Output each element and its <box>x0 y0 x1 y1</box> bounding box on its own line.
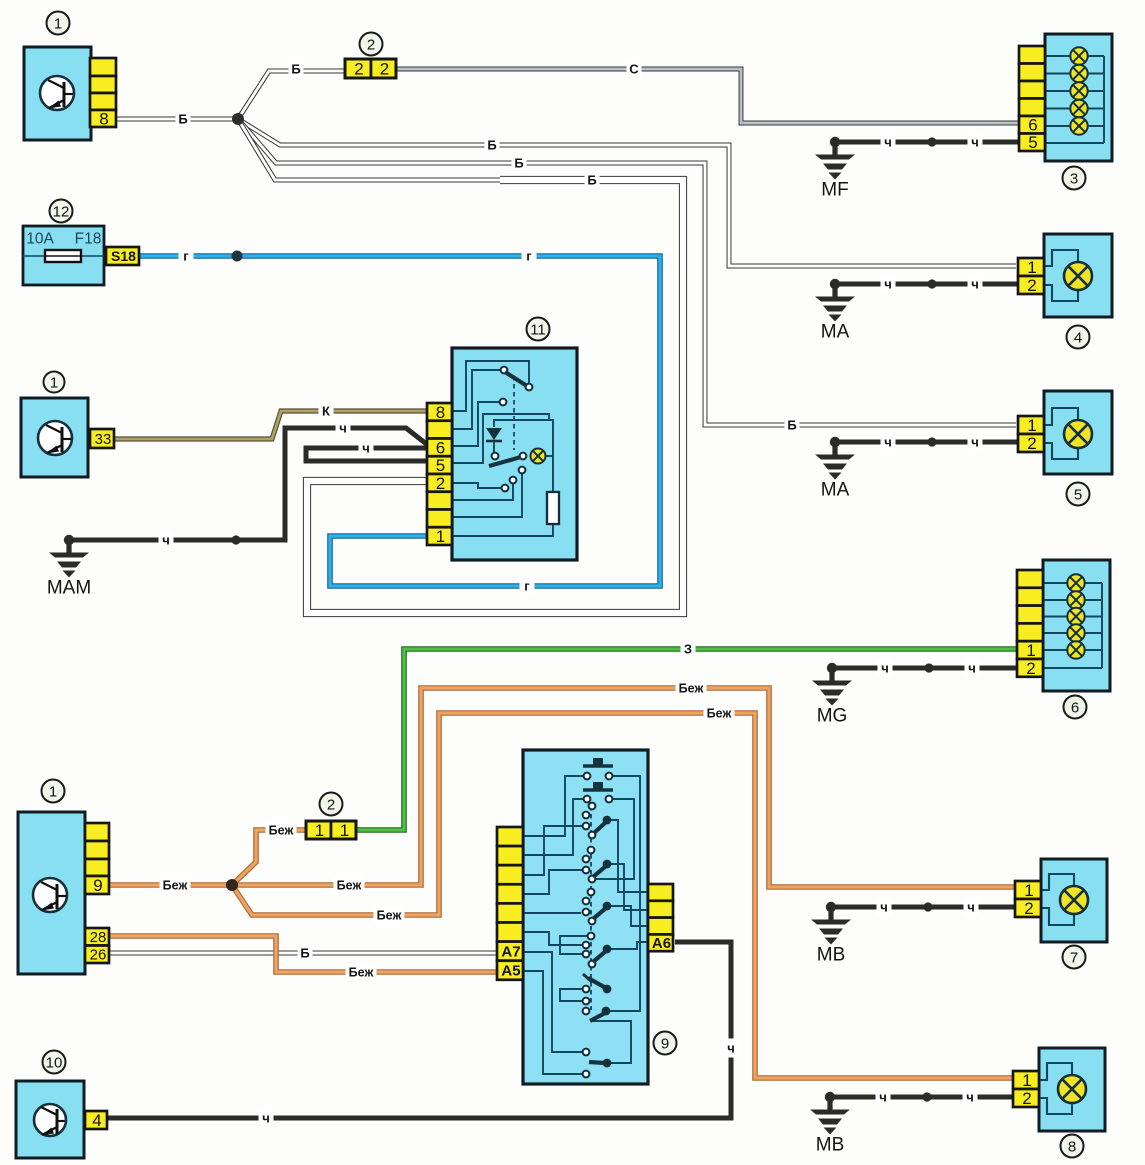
lamps in cluster 3 <box>1070 47 1087 64</box>
wire Беж splice to lamp 8 pin 1 <box>232 713 1014 1078</box>
svg-text:10: 10 <box>46 1054 63 1071</box>
diode in relay <box>486 428 502 440</box>
svg-text:ч: ч <box>162 533 170 548</box>
transistor symbol <box>34 1104 66 1136</box>
ground MA <box>830 437 840 447</box>
relay lower contacts <box>519 467 526 474</box>
ignition switch unit 1 (top) <box>24 47 91 140</box>
pin S18 <box>106 247 139 265</box>
relay 11 body <box>452 348 577 560</box>
svg-text:Беж: Беж <box>679 681 704 695</box>
svg-text:Беж: Беж <box>163 878 188 892</box>
lamp symbol 4 <box>1064 262 1092 290</box>
label Б <box>585 173 600 188</box>
left pins of switch 9 <box>497 827 523 846</box>
wire Беж switch 1 pin 28 to switch 9 pin A5 <box>109 936 499 972</box>
wire ч ground MB to lamp 7 pin 2 <box>831 905 1017 910</box>
svg-text:2: 2 <box>1027 434 1036 453</box>
pins of cluster 3 <box>1019 46 1045 64</box>
transistor symbol <box>33 878 67 912</box>
svg-text:З: З <box>684 642 692 657</box>
label Беж <box>704 706 735 721</box>
ground MB <box>826 902 836 912</box>
relay 11 internal wiring <box>452 361 529 411</box>
svg-text:ч: ч <box>262 1111 270 1126</box>
svg-text:5: 5 <box>436 456 445 475</box>
svg-text:Б: Б <box>587 173 596 188</box>
svg-text:2: 2 <box>327 796 335 813</box>
pins of lamp 5 <box>1018 416 1044 434</box>
designator 11 <box>527 318 550 341</box>
switch stage D <box>588 933 595 940</box>
svg-text:ч: ч <box>362 441 370 456</box>
label Беж <box>160 878 191 893</box>
wire К switch unit 1 pin 33 to relay 11 pin 8 <box>114 411 429 439</box>
lamp cluster 6 <box>1043 560 1110 691</box>
svg-text:ч: ч <box>881 661 889 676</box>
svg-text:ч: ч <box>879 1090 887 1105</box>
label ч <box>359 441 374 456</box>
splice on wire Г <box>232 251 243 262</box>
svg-text:2: 2 <box>1022 1089 1031 1108</box>
label г <box>522 249 537 264</box>
lamp unit 4 <box>1044 234 1112 317</box>
lamp unit 5 <box>1044 391 1112 474</box>
svg-text:1: 1 <box>315 821 324 840</box>
internal wiring of cluster 6 <box>1043 582 1068 584</box>
svg-text:5: 5 <box>1074 486 1082 503</box>
switch stage A <box>589 803 596 810</box>
push button contact 2 <box>583 788 613 791</box>
label Беж <box>346 965 377 980</box>
label Беж <box>676 681 707 696</box>
wire Б splice loop to relay 11 pin 2 <box>238 119 500 180</box>
lamp unit 7 <box>1041 859 1107 942</box>
svg-text:Б: Б <box>300 946 309 961</box>
svg-text:8: 8 <box>1068 1138 1076 1155</box>
wire Беж splice to connector 2 <box>232 830 306 885</box>
svg-text:1: 1 <box>50 374 58 391</box>
svg-text:MA: MA <box>821 480 850 501</box>
wire ч switch 10 pin 4 to switch 9 pin A6 <box>107 942 731 1118</box>
wire Б from switch unit 1 pin 8 to splice <box>116 117 238 122</box>
svg-text:ч: ч <box>968 661 976 676</box>
svg-text:33: 33 <box>95 431 112 448</box>
svg-text:ч: ч <box>884 435 892 450</box>
wire Б splice to connector 2 <box>238 71 345 119</box>
pins of unit 1 bottom <box>85 823 109 841</box>
svg-text:9: 9 <box>661 1035 669 1052</box>
wire Беж splice to lamp 7 pin 1 <box>232 688 1016 887</box>
ground MB <box>825 1092 835 1102</box>
svg-text:1: 1 <box>1026 641 1035 660</box>
designator 7 <box>1063 946 1086 969</box>
svg-text:1: 1 <box>54 15 62 32</box>
label ч <box>259 1111 274 1126</box>
splice node on Б wires <box>232 113 244 125</box>
designator 2 <box>360 33 383 56</box>
wire ч ground MG to lamp cluster 6 pin 2 <box>832 666 1019 671</box>
connector 2 (bottom) <box>306 821 331 839</box>
svg-text:ч: ч <box>884 277 892 292</box>
svg-text:1: 1 <box>1027 258 1036 277</box>
svg-text:2: 2 <box>1026 659 1035 678</box>
resistor in relay <box>547 492 559 524</box>
svg-text:г: г <box>524 579 530 594</box>
svg-text:Б: Б <box>787 418 796 433</box>
wire Б switch 1 pin 26 to switch 9 pin A7 <box>109 951 499 956</box>
pins of lamp 8 <box>1013 1071 1039 1089</box>
lamp cluster 3 <box>1045 34 1112 161</box>
designator 9 <box>654 1032 677 1055</box>
internal wiring of cluster 3 <box>1045 55 1070 57</box>
wire ч ground MA to lamp 5 pin 2 <box>835 440 1020 445</box>
label Б <box>485 138 500 153</box>
svg-text:4: 4 <box>1074 329 1082 346</box>
svg-text:2: 2 <box>380 59 389 78</box>
svg-text:1: 1 <box>1024 881 1033 900</box>
lamps in cluster 6 <box>1067 574 1084 591</box>
label Беж <box>266 823 297 838</box>
label ч <box>336 421 351 436</box>
wire ч ground MF to lamp cluster 3 pin 5 <box>835 140 1021 145</box>
designator 10 <box>43 1051 66 1074</box>
svg-text:S18: S18 <box>111 248 136 264</box>
svg-text:ч: ч <box>884 135 892 150</box>
svg-text:4: 4 <box>92 1111 101 1130</box>
pins of cluster 6 <box>1017 570 1043 588</box>
label К <box>319 404 334 419</box>
svg-text:12: 12 <box>53 203 70 220</box>
label Б <box>785 418 800 433</box>
designator 6 <box>1064 696 1087 719</box>
svg-text:10A: 10A <box>26 230 54 247</box>
ground МАМ <box>64 535 74 545</box>
svg-text:A5: A5 <box>501 963 520 980</box>
svg-text:Б: Б <box>514 156 523 171</box>
svg-text:ч: ч <box>966 1090 974 1105</box>
connector 2 (top) <box>345 59 371 78</box>
wire С connector 2 to lamp cluster 3 pin 6 <box>396 69 1021 123</box>
designator 1 <box>42 780 65 803</box>
svg-text:Б: Б <box>291 62 300 77</box>
relay switch top <box>501 367 508 374</box>
svg-text:Беж: Беж <box>269 823 294 837</box>
svg-text:1: 1 <box>49 783 57 800</box>
svg-text:8: 8 <box>99 109 108 128</box>
label Б <box>176 112 191 127</box>
svg-text:A7: A7 <box>501 943 520 960</box>
svg-text:6: 6 <box>436 438 445 457</box>
pins of relay 11 <box>427 403 452 421</box>
designator 4 <box>1067 326 1090 349</box>
switch stage F <box>583 1049 590 1056</box>
indicator lamp in relay <box>531 449 546 464</box>
svg-text:MB: MB <box>816 1135 845 1156</box>
svg-text:2: 2 <box>1024 899 1033 918</box>
fuse symbol <box>45 250 81 262</box>
svg-text:1: 1 <box>1027 416 1036 435</box>
internal wiring of lamp 8 <box>1039 1063 1072 1080</box>
splice node on Беж wires <box>226 879 238 891</box>
svg-text:8: 8 <box>436 403 445 422</box>
lamp symbol 8 <box>1058 1075 1086 1103</box>
switch unit 10 <box>16 1081 84 1158</box>
relay switch middle <box>492 453 499 460</box>
switch unit 1 (middle) <box>21 398 88 477</box>
svg-text:11: 11 <box>530 321 546 338</box>
label г <box>520 579 535 594</box>
switch stage B <box>588 847 595 854</box>
wire Г fuse F18 to relay 11 pin 1 <box>138 256 660 586</box>
svg-text:1: 1 <box>340 821 349 840</box>
pins of lamp 7 <box>1015 881 1041 899</box>
pin 4 <box>85 1111 107 1129</box>
mechanical link dashed <box>513 376 515 450</box>
label Б <box>512 156 527 171</box>
svg-text:6: 6 <box>1071 699 1079 716</box>
svg-text:ч: ч <box>971 435 979 450</box>
designator 1 <box>44 372 65 393</box>
label Беж <box>374 908 405 923</box>
svg-text:г: г <box>526 249 532 264</box>
svg-text:3: 3 <box>1070 170 1078 187</box>
svg-text:Беж: Беж <box>707 706 732 720</box>
svg-text:МАМ: МАМ <box>47 578 91 599</box>
switch unit 1 (bottom) <box>18 812 85 974</box>
svg-text:С: С <box>629 62 639 77</box>
designator 3 <box>1063 167 1086 190</box>
ground MA <box>830 279 840 289</box>
designator 12 <box>50 200 73 223</box>
internal wiring of lamp 4 <box>1044 250 1078 266</box>
connector pins of unit 1 <box>90 58 116 76</box>
transistor symbol <box>38 421 72 455</box>
pins of lamp 4 <box>1018 258 1044 276</box>
transistor symbol in unit 1 <box>40 76 74 110</box>
svg-text:Беж: Беж <box>349 965 374 979</box>
lamp unit 8 <box>1039 1048 1105 1131</box>
right pins of switch 9 <box>648 884 673 901</box>
svg-text:ч: ч <box>971 277 979 292</box>
designator 8 <box>1061 1135 1084 1158</box>
svg-text:2: 2 <box>1027 276 1036 295</box>
svg-text:Беж: Беж <box>337 878 362 892</box>
wire З connector 2 to lamp cluster 6 pin 1 <box>356 649 1019 830</box>
svg-text:ч: ч <box>967 900 975 915</box>
svg-text:2: 2 <box>367 36 375 53</box>
svg-text:F18: F18 <box>75 230 102 247</box>
switch stage C <box>588 889 595 896</box>
switch 9 internal wiring <box>523 776 583 836</box>
wire Беж switch 1 pin 9 to splice <box>109 882 232 888</box>
ground MG <box>827 663 837 673</box>
svg-text:MB: MB <box>817 945 846 966</box>
svg-text:2: 2 <box>354 59 363 78</box>
svg-text:Беж: Беж <box>377 908 402 922</box>
relay contact <box>500 399 507 406</box>
label Беж <box>334 878 365 893</box>
svg-text:7: 7 <box>1070 949 1078 966</box>
label Б <box>289 62 304 77</box>
label ч <box>159 533 174 548</box>
svg-text:5: 5 <box>1028 133 1037 152</box>
lamp symbol 5 <box>1064 420 1092 448</box>
svg-text:ч: ч <box>880 900 888 915</box>
svg-text:MF: MF <box>821 180 848 201</box>
svg-text:28: 28 <box>90 929 107 946</box>
label Б <box>298 946 313 961</box>
svg-text:г: г <box>183 249 189 264</box>
designator 1 <box>47 12 70 35</box>
lamp symbol 7 <box>1060 886 1088 914</box>
wire ч ground MB to lamp 8 pin 2 <box>830 1095 1015 1100</box>
designator 5 <box>1067 483 1090 506</box>
mechanical link dashed in switch 9 <box>590 806 592 1010</box>
wire ч ground MA to lamp 4 pin 2 <box>835 282 1020 287</box>
svg-text:ч: ч <box>339 421 347 436</box>
fuse F18 box 12 <box>23 226 104 285</box>
label ч on vertical <box>725 1039 738 1058</box>
svg-text:6: 6 <box>1028 116 1037 135</box>
svg-text:Б: Б <box>487 138 496 153</box>
wire ч ground МАМ to relay 11 pin 6 <box>69 428 429 540</box>
designator 2 <box>320 793 343 816</box>
label З <box>681 642 696 657</box>
ground MF <box>830 137 840 147</box>
svg-text:К: К <box>322 404 330 419</box>
svg-text:26: 26 <box>90 947 107 964</box>
svg-text:MG: MG <box>817 706 848 727</box>
wire Б splice to lamp 5 pin 1 <box>238 119 1016 425</box>
svg-text:9: 9 <box>93 876 102 895</box>
wire ч jumper relay pin 6 to pin 5 <box>306 448 429 461</box>
svg-text:A6: A6 <box>652 935 671 952</box>
svg-text:1: 1 <box>436 527 445 546</box>
switch stage E <box>588 978 606 988</box>
svg-text:ч: ч <box>971 135 979 150</box>
label г <box>179 249 194 264</box>
push button contact 1 <box>583 764 613 767</box>
svg-text:MA: MA <box>821 322 850 343</box>
svg-text:ч: ч <box>727 1041 735 1056</box>
svg-text:1: 1 <box>1022 1071 1031 1090</box>
svg-text:Б: Б <box>178 112 187 127</box>
label С <box>627 62 642 77</box>
pin 33 <box>90 429 114 448</box>
internal wiring of lamp 5 <box>1044 408 1078 425</box>
wire Б splice to lamp 4 pin 1 <box>238 119 1016 266</box>
light switch unit 9 body <box>523 750 648 1084</box>
svg-text:2: 2 <box>436 474 445 493</box>
internal wiring of lamp 7 <box>1041 874 1074 890</box>
